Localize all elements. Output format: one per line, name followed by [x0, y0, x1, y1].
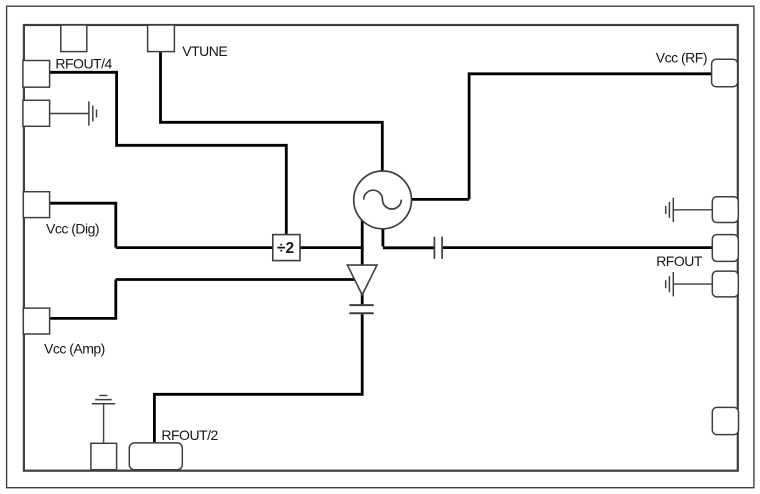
ground symbol (bottom, above GND pad) — [92, 396, 116, 444]
wire oscillator lower-left to amp input vertical — [361, 218, 364, 266]
svg-text:VTUNE: VTUNE — [182, 43, 227, 59]
pad top-left (NC) — [61, 25, 87, 52]
sine wave inside oscillator — [364, 190, 402, 209]
ground symbol (right lower) — [666, 272, 713, 296]
pad RFOUT — [712, 235, 738, 262]
wire Vcc (RF) net: pad to oscillator right — [411, 72, 712, 199]
capacitor C1 (series coupling cap on RFOUT line) — [434, 237, 442, 259]
svg-text:RFOUT/4: RFOUT/4 — [55, 56, 112, 72]
capacitor C2 (shunt cap below amp) — [349, 305, 373, 313]
pad GND (right lower) — [712, 271, 738, 297]
amplifier U3 (triangle) — [347, 265, 377, 295]
svg-text:Vcc (Dig): Vcc (Dig) — [46, 220, 99, 236]
divider U2 box — [273, 235, 300, 261]
wire coupling cap to RFOUT pad — [443, 246, 713, 249]
pad GND (left) — [23, 100, 50, 126]
pad Vcc (RF) — [712, 59, 738, 86]
wire Vcc (Dig) net: pad to divider left — [50, 202, 273, 248]
oscillator U1 (VCO circle) — [354, 171, 412, 229]
pad GND (right upper) — [712, 197, 738, 223]
wire oscillator bottom to coupling cap — [383, 228, 435, 248]
pad GND (bottom) — [91, 443, 117, 469]
wire RFOUT/4 net: pad to divider input — [50, 71, 288, 235]
svg-text:Vcc (RF): Vcc (RF) — [656, 49, 707, 65]
pad bottom-right (NC) — [712, 407, 738, 434]
pad RFOUT/4 — [23, 61, 50, 88]
ground symbol (left, of GND pad) — [50, 101, 97, 125]
svg-text:Vcc (Amp): Vcc (Amp) — [44, 340, 105, 356]
wire divider output to amp branch node — [300, 246, 364, 249]
svg-text:RFOUT: RFOUT — [656, 253, 703, 269]
ground symbol (right upper) — [666, 198, 713, 222]
wire Vcc (Amp) net: pad to amp left side — [50, 280, 355, 320]
svg-text:÷2: ÷2 — [277, 240, 294, 257]
pad Vcc (Dig) — [23, 192, 49, 218]
pad VTUNE — [148, 25, 175, 52]
svg-text:RFOUT/2: RFOUT/2 — [161, 427, 218, 443]
pad RFOUT/2 — [129, 443, 182, 470]
wire amp output to shunt cap — [361, 293, 364, 305]
wire shunt cap to RFOUT/2 pad — [153, 314, 364, 443]
pad Vcc (Amp) — [23, 308, 49, 334]
wire VTUNE net: pad to oscillator top — [159, 52, 384, 172]
